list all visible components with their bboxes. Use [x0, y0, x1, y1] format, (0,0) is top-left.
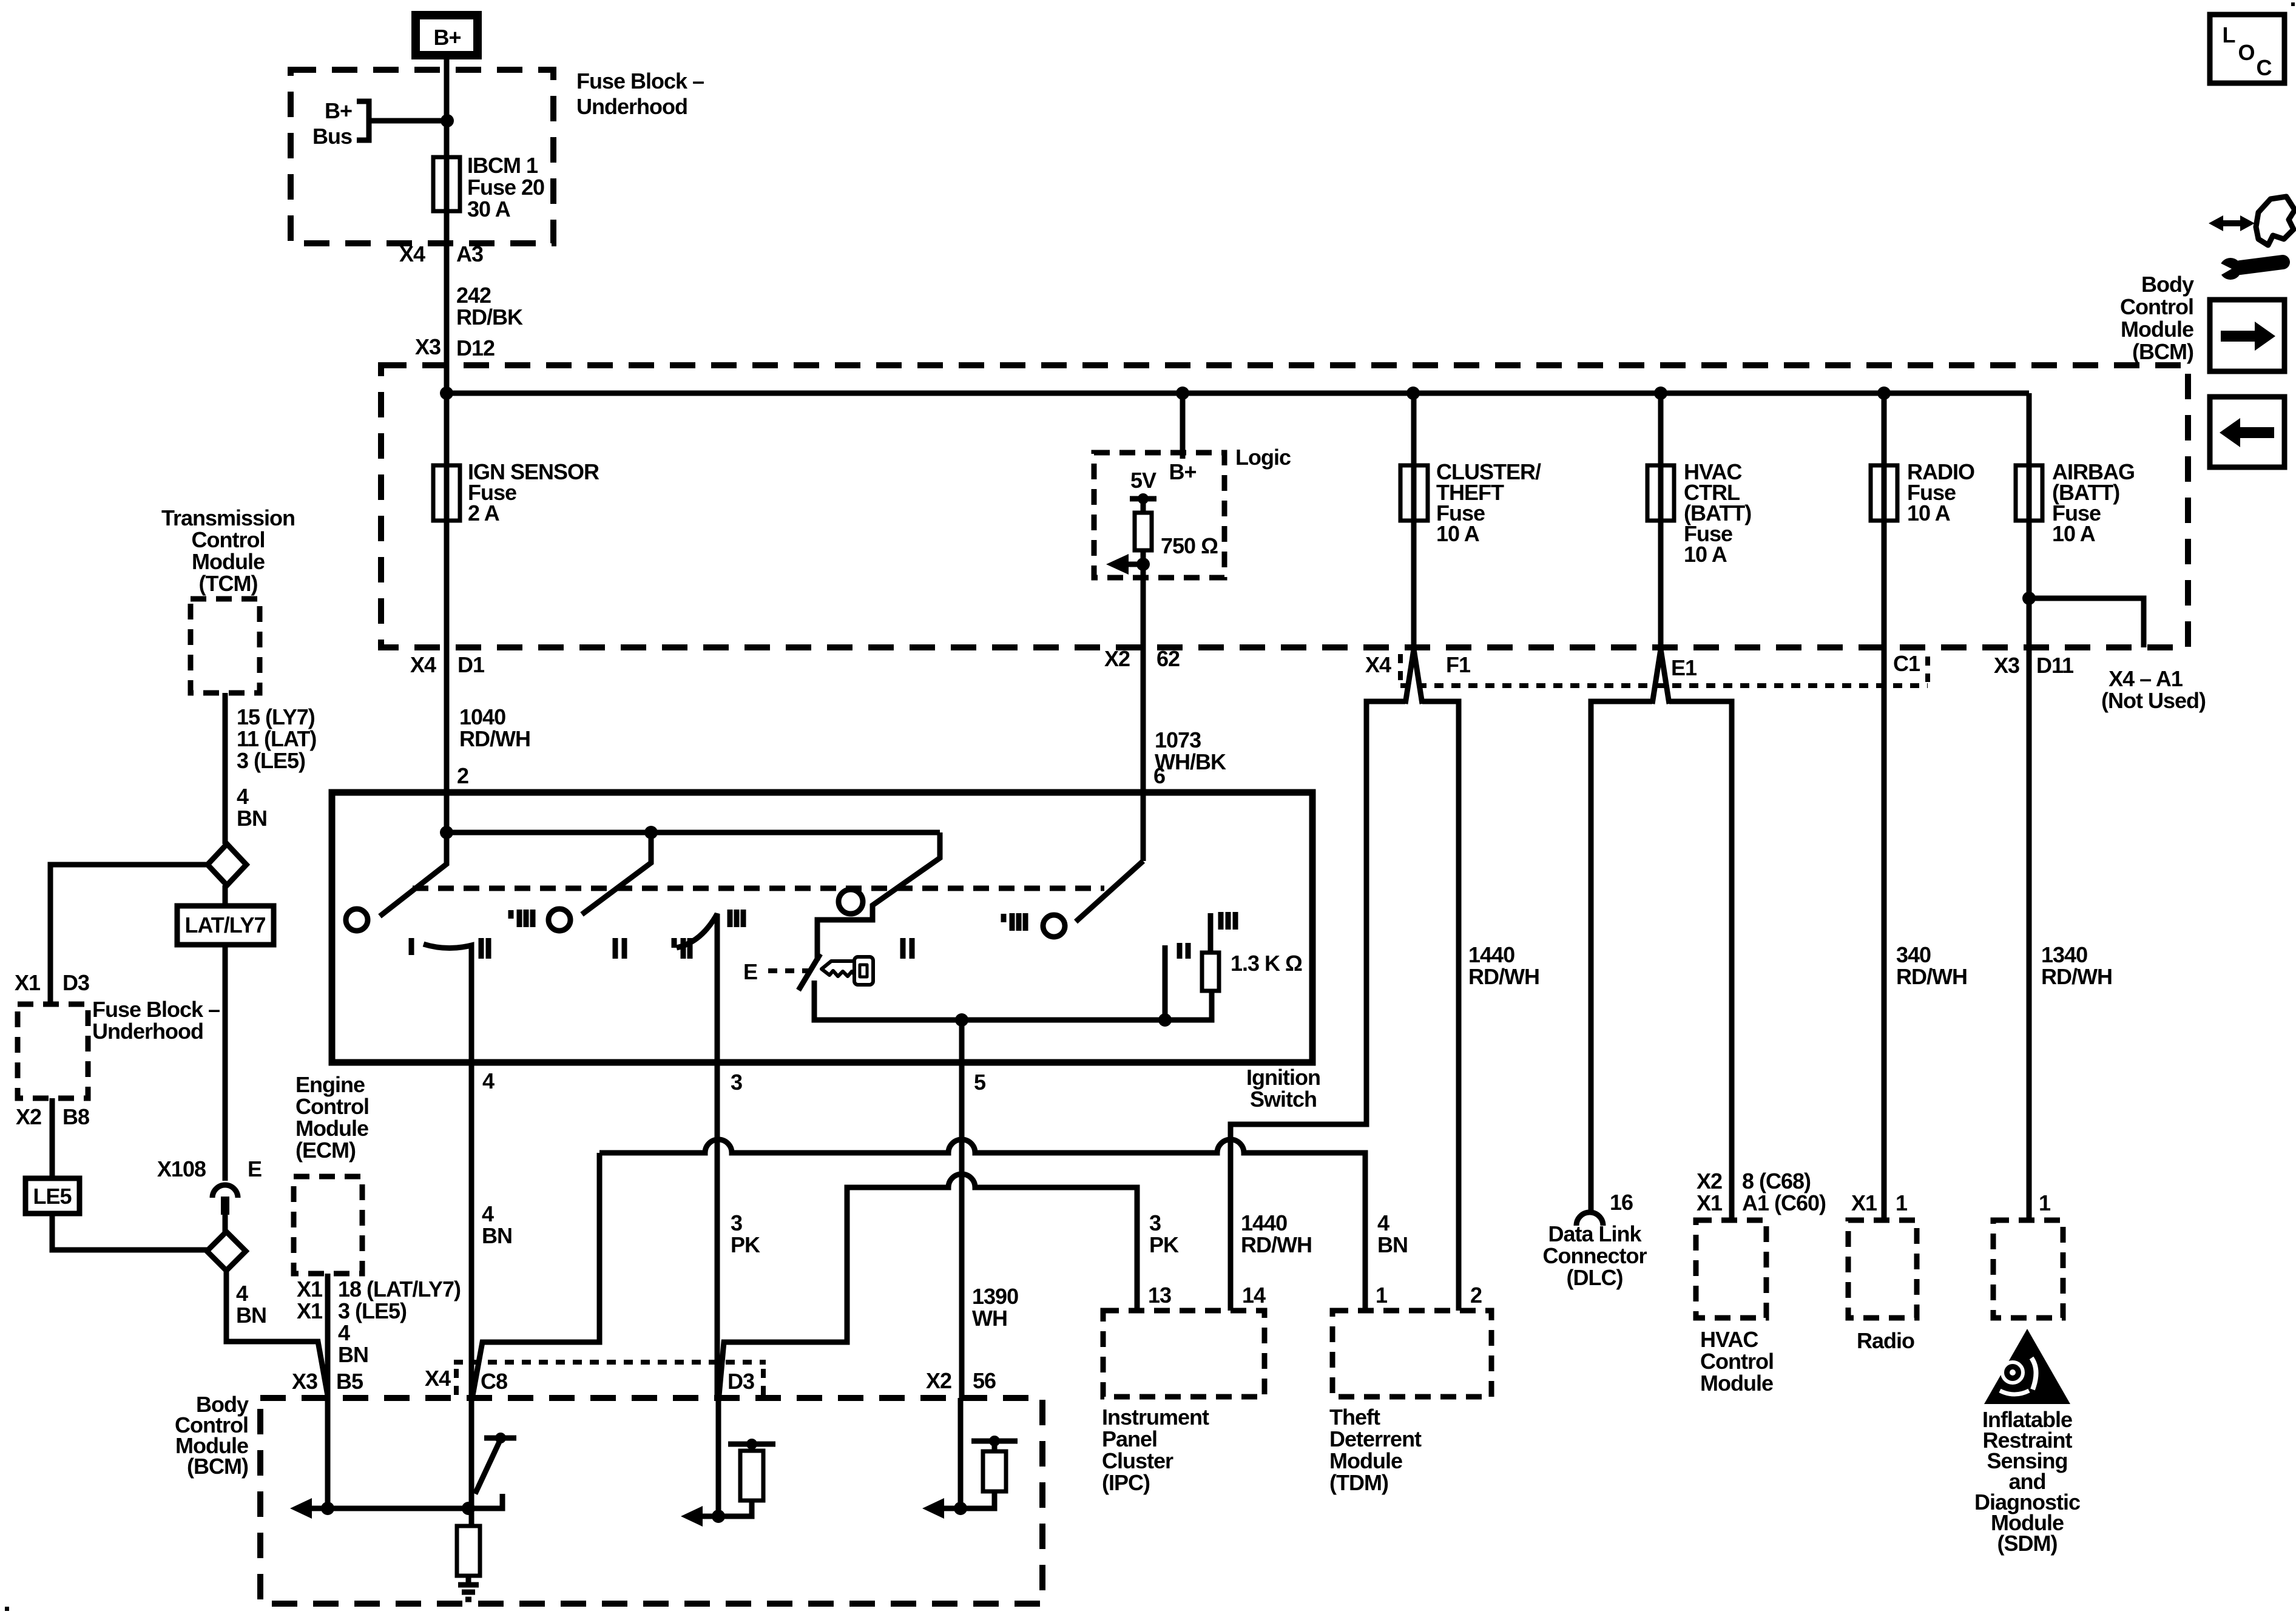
svg-text:A1 (C60): A1 (C60) [1742, 1190, 1826, 1215]
svg-text:BN: BN [1377, 1232, 1408, 1257]
svg-text:1390: 1390 [972, 1284, 1018, 1309]
svg-text:2: 2 [457, 763, 468, 788]
svg-text:B+: B+ [433, 25, 461, 50]
svg-text:(ECM): (ECM) [295, 1138, 356, 1163]
svg-text:Fuse Block –: Fuse Block – [576, 69, 704, 93]
svg-text:4: 4 [1377, 1210, 1389, 1235]
svg-text:Data Link: Data Link [1548, 1221, 1642, 1246]
svg-text:X4 – A1: X4 – A1 [2109, 666, 2183, 691]
svg-text:8 (C68): 8 (C68) [1742, 1169, 1811, 1193]
svg-text:Panel: Panel [1102, 1426, 1157, 1451]
svg-text:1040: 1040 [459, 704, 505, 729]
svg-text:X2: X2 [16, 1104, 41, 1129]
svg-text:LE5: LE5 [33, 1184, 72, 1209]
svg-text:X3: X3 [1994, 653, 2019, 678]
svg-text:10 A: 10 A [2052, 521, 2096, 546]
svg-text:LAT/LY7: LAT/LY7 [184, 913, 265, 937]
svg-text:E1: E1 [1671, 655, 1697, 680]
svg-text:11 (LAT): 11 (LAT) [237, 726, 316, 751]
svg-text:62: 62 [1156, 646, 1180, 671]
svg-text:C1: C1 [1893, 651, 1920, 676]
svg-text:30 A: 30 A [467, 197, 511, 221]
svg-text:X108: X108 [157, 1156, 206, 1181]
svg-text:13: 13 [1148, 1283, 1171, 1308]
svg-text:3 (LE5): 3 (LE5) [237, 748, 305, 773]
svg-text:Transmission: Transmission [161, 505, 295, 530]
svg-text:A3: A3 [456, 241, 483, 266]
svg-text:Underhood: Underhood [576, 94, 687, 119]
svg-text:X2: X2 [926, 1368, 951, 1393]
svg-text:Control: Control [1700, 1349, 1774, 1374]
svg-text:X1: X1 [15, 970, 41, 995]
svg-text:14: 14 [1242, 1283, 1266, 1308]
svg-text:PK: PK [731, 1232, 760, 1257]
svg-text:Instrument: Instrument [1102, 1405, 1209, 1430]
svg-text:Module: Module [295, 1116, 368, 1141]
svg-text:1: 1 [1896, 1190, 1908, 1215]
svg-text:Engine: Engine [295, 1072, 365, 1097]
svg-text:X4: X4 [425, 1366, 451, 1391]
svg-text:1.3 K Ω: 1.3 K Ω [1231, 951, 1302, 976]
svg-text:X4: X4 [410, 652, 436, 677]
svg-text:E: E [248, 1156, 262, 1181]
svg-text:X2: X2 [1697, 1169, 1722, 1193]
svg-text:Ignition: Ignition [1246, 1065, 1320, 1090]
svg-text:Theft: Theft [1329, 1405, 1380, 1430]
svg-text:X1: X1 [1697, 1190, 1723, 1215]
svg-text:(IPC): (IPC) [1102, 1470, 1150, 1495]
svg-text:L: L [2223, 22, 2235, 47]
svg-text:1073: 1073 [1155, 727, 1201, 752]
svg-text:Cluster: Cluster [1102, 1448, 1173, 1473]
svg-text:B5: B5 [336, 1369, 363, 1394]
svg-text:750 Ω: 750 Ω [1161, 533, 1218, 558]
svg-text:X2: X2 [1104, 646, 1130, 671]
svg-text:16: 16 [1610, 1190, 1633, 1215]
svg-text:1440: 1440 [1468, 942, 1514, 967]
svg-text:1340: 1340 [2041, 942, 2087, 967]
svg-text:Fuse Block –: Fuse Block – [92, 997, 220, 1022]
svg-text:D12: D12 [456, 336, 495, 360]
svg-text:BN: BN [236, 1303, 266, 1328]
svg-text:RD/WH: RD/WH [1468, 964, 1539, 989]
svg-text:Module: Module [2121, 317, 2193, 342]
svg-text:Deterrent: Deterrent [1329, 1426, 1422, 1451]
svg-text:X1: X1 [1851, 1190, 1877, 1215]
svg-text:10 A: 10 A [1436, 521, 1480, 546]
svg-text:56: 56 [973, 1368, 996, 1393]
svg-text:4: 4 [237, 784, 249, 809]
svg-text:X1: X1 [297, 1277, 323, 1301]
svg-text:10 A: 10 A [1684, 542, 1727, 567]
svg-text:Control: Control [192, 527, 265, 552]
svg-text:(BCM): (BCM) [187, 1454, 248, 1479]
svg-text:BN: BN [237, 806, 267, 831]
svg-text:F1: F1 [1446, 652, 1471, 677]
svg-text:WH/BK: WH/BK [1155, 749, 1226, 774]
svg-text:Control: Control [2120, 294, 2193, 319]
svg-text:BN: BN [482, 1223, 512, 1248]
svg-text:D11: D11 [2036, 653, 2074, 678]
svg-text:Logic: Logic [1235, 445, 1291, 470]
svg-text:Fuse 20: Fuse 20 [467, 175, 544, 200]
svg-text:10 A: 10 A [1907, 501, 1951, 525]
svg-text:RD/WH: RD/WH [2041, 964, 2112, 989]
svg-text:5V: 5V [1130, 468, 1156, 493]
svg-text:3: 3 [1149, 1210, 1161, 1235]
svg-text:340: 340 [1896, 942, 1931, 967]
svg-text:18 (LAT/LY7): 18 (LAT/LY7) [338, 1277, 461, 1301]
svg-text:(BCM): (BCM) [2132, 339, 2193, 364]
svg-text:(TDM): (TDM) [1329, 1470, 1388, 1495]
svg-text:X3: X3 [292, 1369, 317, 1394]
svg-text:E: E [743, 959, 757, 984]
svg-text:X4: X4 [399, 241, 425, 266]
svg-text:Underhood: Underhood [92, 1019, 203, 1044]
svg-text:BN: BN [338, 1342, 368, 1367]
svg-text:2: 2 [1470, 1283, 1482, 1308]
svg-text:5: 5 [974, 1070, 986, 1095]
svg-text:(Not Used): (Not Used) [2101, 688, 2206, 713]
svg-text:IBCM 1: IBCM 1 [467, 153, 538, 178]
svg-text:PK: PK [1149, 1232, 1179, 1257]
svg-text:Switch: Switch [1250, 1087, 1317, 1112]
svg-text:C8: C8 [481, 1369, 507, 1394]
svg-text:1: 1 [2039, 1190, 2051, 1215]
svg-text:RD/WH: RD/WH [459, 726, 530, 751]
svg-text:D1: D1 [458, 652, 485, 677]
svg-text:3 (LE5): 3 (LE5) [338, 1298, 407, 1323]
svg-text:RD/WH: RD/WH [1241, 1232, 1312, 1257]
svg-text:B8: B8 [62, 1104, 89, 1129]
svg-text:(SDM): (SDM) [1997, 1531, 2058, 1556]
svg-text:Module: Module [1329, 1448, 1402, 1473]
svg-text:X3: X3 [415, 334, 441, 359]
svg-text:Control: Control [295, 1094, 369, 1119]
svg-text:WH: WH [972, 1306, 1007, 1331]
svg-text:Radio: Radio [1857, 1328, 1914, 1353]
svg-text:15 (LY7): 15 (LY7) [237, 704, 315, 729]
svg-text:RD/WH: RD/WH [1896, 964, 1967, 989]
svg-text:4: 4 [482, 1201, 494, 1226]
svg-text:4: 4 [236, 1281, 248, 1306]
svg-text:1: 1 [1376, 1283, 1388, 1308]
svg-text:(DLC): (DLC) [1567, 1265, 1623, 1290]
svg-text:C: C [2257, 55, 2272, 80]
svg-text:RD/BK: RD/BK [456, 305, 523, 329]
svg-text:HVAC: HVAC [1700, 1327, 1758, 1352]
svg-text:Module: Module [1700, 1371, 1773, 1396]
svg-text:X4: X4 [1365, 652, 1391, 677]
svg-text:Bus: Bus [312, 124, 352, 149]
svg-text:4: 4 [338, 1320, 350, 1345]
svg-text:4: 4 [482, 1068, 495, 1093]
svg-text:O: O [2238, 40, 2254, 65]
svg-text:X1: X1 [297, 1298, 323, 1323]
svg-text:(TCM): (TCM) [199, 571, 258, 596]
svg-text:B+: B+ [1169, 459, 1196, 484]
svg-text:242: 242 [456, 283, 491, 308]
svg-text:D3: D3 [728, 1369, 754, 1394]
svg-text:Body: Body [2141, 272, 2194, 297]
svg-text:B+: B+ [325, 98, 352, 123]
svg-text:3: 3 [731, 1070, 742, 1095]
svg-text:3: 3 [731, 1210, 742, 1235]
svg-text:Connector: Connector [1543, 1243, 1647, 1268]
svg-text:2 A: 2 A [468, 501, 500, 525]
svg-text:Module: Module [192, 549, 265, 574]
svg-text:1440: 1440 [1241, 1210, 1287, 1235]
svg-text:D3: D3 [62, 970, 89, 995]
svg-text:6: 6 [1153, 763, 1165, 788]
